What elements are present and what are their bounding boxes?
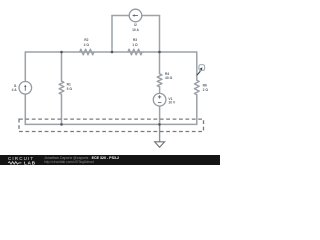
resistor R3 xyxy=(128,49,142,55)
resistor R2 xyxy=(80,49,94,55)
node junction bottom/ground xyxy=(158,123,161,126)
wire R4 to V1 xyxy=(159,87,161,94)
label R3 value xyxy=(132,38,138,47)
wire I1 top lead xyxy=(24,52,26,82)
svg-text:4 Ω: 4 Ω xyxy=(84,43,90,47)
label R1 value xyxy=(67,83,73,91)
svg-text:10 A: 10 A xyxy=(132,28,139,32)
wire R1 top lead xyxy=(61,52,63,81)
label R2 value xyxy=(84,38,90,47)
wire bottom net xyxy=(25,123,197,125)
current source I1 xyxy=(19,82,32,95)
voltage source V1 xyxy=(153,93,166,106)
wire top net (right of I2) xyxy=(142,15,160,17)
svg-text:1 Ω: 1 Ω xyxy=(132,43,138,47)
resistor R6 xyxy=(194,80,199,94)
wire R1 bottom lead xyxy=(61,94,63,124)
wire I2 right vertical drop to R4 xyxy=(159,16,161,74)
svg-text:http://circuitlab.com/c973kg8d: http://circuitlab.com/c973kg8dmzd xyxy=(44,160,94,164)
wire I1 bottom lead xyxy=(24,94,26,124)
wire R6 top lead xyxy=(196,52,198,80)
svg-text:LAB: LAB xyxy=(24,160,36,165)
selection box (dashed) around bottom net xyxy=(19,119,204,131)
node junction bottom/R1 xyxy=(60,123,63,126)
node junction main/I2-left xyxy=(111,51,114,54)
wire V1 to bottom net xyxy=(159,106,161,124)
footer watermark bar xyxy=(0,155,220,165)
wire I2 left vertical drop xyxy=(111,16,113,53)
node junction main/R4 xyxy=(158,51,161,54)
svg-text:5 Ω: 5 Ω xyxy=(67,87,73,91)
label I1 value xyxy=(12,84,18,92)
svg-text:R2: R2 xyxy=(84,38,88,42)
label R4 value xyxy=(165,72,173,80)
label V1 value xyxy=(168,97,176,105)
svg-text:2 Ω: 2 Ω xyxy=(203,88,209,92)
svg-text:40 Ω: 40 Ω xyxy=(165,76,173,80)
CircuitLab logo xyxy=(8,156,36,165)
wire top net (left of I2) xyxy=(112,15,129,17)
resistor R1 xyxy=(59,81,64,94)
wire main horizontal net xyxy=(25,51,197,53)
current source I2 xyxy=(129,9,142,22)
svg-text:I2: I2 xyxy=(134,23,137,27)
svg-text:4 A: 4 A xyxy=(12,88,18,92)
svg-text:10 V: 10 V xyxy=(168,101,176,105)
current probe annotation on R6 xyxy=(197,65,205,76)
wire R6 bottom lead xyxy=(196,95,198,125)
label R6 value xyxy=(203,84,209,92)
label I2 value xyxy=(132,23,139,32)
svg-text:R3: R3 xyxy=(133,38,137,42)
resistor R4 xyxy=(157,74,162,87)
node junction main/R1 xyxy=(60,51,63,54)
ground xyxy=(155,124,165,147)
